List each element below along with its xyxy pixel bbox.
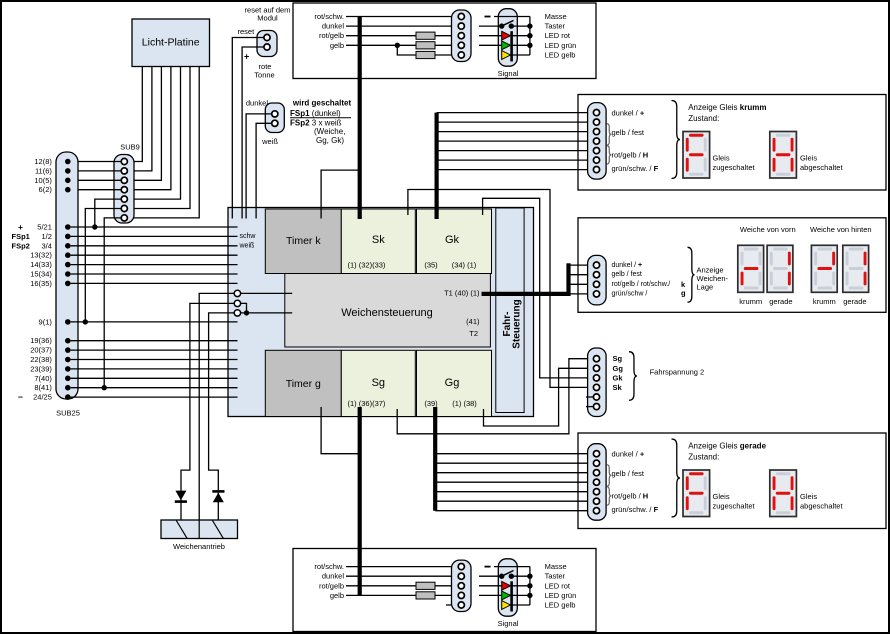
svg-text:14(33): 14(33) bbox=[30, 260, 52, 269]
Licht-Platine board bbox=[132, 19, 210, 67]
resistor R gelb bbox=[416, 592, 435, 599]
svg-text:Sk: Sk bbox=[613, 383, 623, 392]
module main board bbox=[228, 208, 534, 417]
SUB25 pin 16(35) bbox=[65, 281, 71, 287]
Weichenantrieb box bbox=[161, 520, 238, 539]
svg-text:22(38): 22(38) bbox=[30, 355, 52, 364]
svg-text:rot/gelb / H: rot/gelb / H bbox=[612, 491, 649, 500]
wire SUB25 row to module bbox=[71, 254, 238, 256]
module output pin 2 bbox=[234, 300, 240, 306]
pin 5 bbox=[593, 148, 599, 154]
svg-text:Gleis: Gleis bbox=[713, 154, 730, 163]
svg-text:8(41): 8(41) bbox=[34, 383, 52, 392]
SUB25 pin 15(34) bbox=[65, 271, 71, 277]
connector pin 3 bbox=[458, 33, 464, 39]
wire Licht-Platine pin 2 to SUB9 pin 2 bbox=[127, 67, 151, 171]
big brace bbox=[672, 101, 681, 179]
pin 4 bbox=[593, 291, 599, 297]
wire bus to pin 1 bbox=[435, 453, 593, 455]
connector pin 2 bbox=[458, 23, 464, 29]
wire Masse bbox=[494, 566, 530, 568]
svg-text:9(1): 9(1) bbox=[39, 317, 53, 326]
signal box frame bbox=[293, 3, 596, 79]
svg-text:weiß: weiß bbox=[239, 242, 255, 249]
svg-text:Licht-Platine: Licht-Platine bbox=[142, 37, 200, 49]
svg-text:LED grün: LED grün bbox=[545, 41, 577, 50]
wire Licht-Platine pin 6 to SUB9 pin 6 bbox=[127, 67, 190, 209]
LED gelb bbox=[502, 601, 511, 610]
pin 1 bbox=[593, 451, 599, 457]
svg-text:3/4: 3/4 bbox=[41, 241, 51, 250]
wire pin1 into Weichensteuerung bbox=[241, 292, 293, 294]
SUB25 pin 6(2) bbox=[65, 187, 71, 193]
wire bus to pin 3 bbox=[437, 131, 594, 133]
wire bus to pin 2 bbox=[437, 121, 594, 123]
svg-text:Taster: Taster bbox=[545, 22, 566, 31]
wire SUB9 pin 6 to 9(1) row bbox=[85, 209, 121, 322]
svg-text:16(35): 16(35) bbox=[30, 279, 52, 288]
Weichen-Lage box bbox=[578, 218, 886, 312]
pin 2 bbox=[593, 365, 599, 371]
SUB9 pin 5 bbox=[121, 196, 127, 202]
pin 2 bbox=[593, 272, 599, 278]
svg-text:LED rot: LED rot bbox=[545, 31, 571, 40]
svg-text:Modul: Modul bbox=[257, 14, 278, 23]
pin 2 bbox=[593, 460, 599, 466]
LED rot bbox=[479, 35, 502, 37]
connector pin 1 bbox=[458, 13, 464, 19]
svg-text:Steuerung: Steuerung bbox=[512, 299, 523, 348]
wire Timer g to Sg bus bbox=[321, 407, 358, 454]
wire bus to pin 4 bbox=[435, 481, 593, 483]
wire SUB25 row to module bbox=[71, 282, 238, 284]
wire drive coil 2 bbox=[209, 313, 235, 520]
svg-text:(1) (32)(33): (1) (32)(33) bbox=[348, 261, 386, 270]
brace Fahrspannung bbox=[629, 352, 637, 401]
svg-text:Gk: Gk bbox=[445, 234, 460, 246]
wire SUB9 pin 3 to SUB25 bbox=[71, 179, 122, 181]
signal lamp connector bbox=[498, 559, 517, 616]
svg-text:Gg, Gk): Gg, Gk) bbox=[316, 136, 344, 145]
pin 2 bbox=[593, 119, 599, 125]
connector module side bbox=[452, 10, 472, 62]
LED rot bbox=[479, 585, 502, 587]
wire SUB25 row to module bbox=[71, 387, 238, 389]
LED gruen bbox=[479, 594, 502, 596]
svg-text:Signal: Signal bbox=[498, 619, 519, 628]
SUB25 pin 8(41) bbox=[65, 385, 71, 391]
SUB9 pin 7 bbox=[121, 215, 127, 221]
wire bus to pin 3 bbox=[435, 472, 593, 474]
7-segment display H bbox=[770, 470, 797, 517]
svg-text:dunkel / +: dunkel / + bbox=[612, 108, 645, 117]
group brace b bbox=[607, 487, 612, 506]
svg-text:rot/schw.: rot/schw. bbox=[314, 12, 344, 21]
svg-text:dunkel: dunkel bbox=[246, 99, 268, 108]
wire Masse bbox=[494, 16, 530, 18]
svg-text:24/25: 24/25 bbox=[33, 393, 52, 402]
svg-text:(1) (36)(37): (1) (36)(37) bbox=[348, 399, 386, 408]
SUB25 pin 7(40) bbox=[65, 376, 71, 382]
signal lamp connector bbox=[498, 9, 517, 66]
svg-text:rot/gelb: rot/gelb bbox=[319, 31, 344, 40]
wire reset pin1 to module bbox=[232, 38, 264, 219]
svg-text:LED rot: LED rot bbox=[545, 581, 571, 590]
SUB9 pin 3 bbox=[121, 177, 127, 183]
stub wire pin5 bbox=[446, 604, 458, 606]
pin 3 bbox=[593, 375, 599, 381]
svg-text:10(5): 10(5) bbox=[34, 176, 52, 185]
svg-text:Timer g: Timer g bbox=[286, 378, 321, 390]
diode D2 bbox=[212, 490, 224, 493]
svg-text:krumm: krumm bbox=[739, 297, 762, 306]
svg-text:LED gelb: LED gelb bbox=[545, 601, 576, 610]
svg-text:Weichenantrieb: Weichenantrieb bbox=[173, 542, 225, 551]
svg-text:1/2: 1/2 bbox=[41, 232, 51, 241]
connector pin 5 bbox=[458, 52, 464, 58]
svg-text:gerade: gerade bbox=[769, 297, 792, 306]
svg-text:Gleis: Gleis bbox=[800, 154, 817, 163]
branch wire to third resistor bbox=[397, 45, 458, 55]
pin 3 bbox=[593, 281, 599, 287]
wire SUB9 pin 7 to 8(41) row bbox=[104, 218, 121, 388]
SUB25 pin 20(37) bbox=[65, 347, 71, 353]
wire bus to pin 7 bbox=[437, 169, 594, 171]
stub pin6 bbox=[586, 406, 593, 408]
connector rote Tonne bbox=[257, 31, 277, 57]
wire bar to pin 4 bbox=[569, 293, 594, 295]
brace Anzeige Weichen-Lage bbox=[688, 247, 695, 302]
bus Gg to Anzeige gerade bbox=[433, 407, 437, 511]
svg-text:(1) (38): (1) (38) bbox=[452, 399, 477, 408]
pin 5 bbox=[593, 394, 599, 400]
wire bar to pin 3 bbox=[569, 283, 594, 285]
svg-text:Lage: Lage bbox=[697, 283, 714, 292]
wire SUB25 row to module bbox=[71, 359, 238, 361]
switch Taster bbox=[479, 575, 502, 577]
svg-text:11(6): 11(6) bbox=[35, 166, 52, 175]
wire bus to pin 1 bbox=[437, 112, 594, 114]
wire bar to pin 1 bbox=[569, 264, 594, 266]
Timer k block bbox=[265, 209, 341, 274]
wire SUB9 pin 4 to SUB25 bbox=[71, 189, 122, 191]
Anzeige Gleis gerade box bbox=[578, 433, 886, 529]
underline bbox=[290, 117, 351, 119]
SUB9 pin 2 bbox=[121, 168, 127, 174]
svg-text:rot/gelb / H: rot/gelb / H bbox=[612, 150, 649, 159]
group brace a bbox=[607, 465, 612, 487]
pin 3 bbox=[593, 129, 599, 135]
wire SUB25 row to module bbox=[71, 368, 238, 370]
wire bus to pin 6 bbox=[435, 500, 593, 502]
wire Gk to Fahrspannung bbox=[483, 198, 594, 378]
svg-text:13(32): 13(32) bbox=[30, 251, 52, 260]
resistor R rot/gelb bbox=[416, 32, 435, 39]
wire Sk to Fahrspannung bbox=[408, 190, 594, 388]
signal box frame bbox=[293, 549, 596, 632]
wire SUB9 pin 5 to +5/21 row bbox=[95, 199, 121, 227]
wire Licht-Platine pin 4 to SUB9 pin 4 bbox=[127, 67, 170, 190]
Fahr-Steuerung block bbox=[496, 208, 524, 413]
connector SUB25 bbox=[56, 152, 78, 399]
SUB25 pin 1/2 bbox=[65, 234, 71, 240]
wire pin3 into Weichensteuerung bbox=[241, 312, 293, 314]
svg-text:gelb / fest: gelb / fest bbox=[612, 469, 645, 478]
svg-text:Signal: Signal bbox=[498, 69, 519, 78]
wire dunkel pin to module bbox=[246, 114, 272, 219]
svg-text:7(40): 7(40) bbox=[34, 374, 52, 383]
switch Taster bbox=[479, 25, 502, 27]
display hinten gerade bbox=[843, 245, 869, 292]
wire Licht-Platine pin 1 to SUB9 pin 1 bbox=[127, 67, 142, 162]
pin 6 bbox=[593, 157, 599, 163]
svg-text:(39): (39) bbox=[424, 399, 438, 408]
svg-text:12(8): 12(8) bbox=[34, 157, 52, 166]
resistor R rot/gelb bbox=[416, 582, 435, 589]
svg-text:schw: schw bbox=[240, 233, 257, 240]
svg-text:LED grün: LED grün bbox=[545, 591, 577, 600]
svg-text:reset: reset bbox=[238, 27, 256, 36]
pin 4 bbox=[593, 479, 599, 485]
connector FSp jumper bbox=[265, 103, 284, 133]
svg-text:Anzeige Gleis gerade: Anzeige Gleis gerade bbox=[688, 441, 766, 450]
SUB25 pin 24/25 bbox=[65, 394, 71, 400]
svg-text:Gg: Gg bbox=[445, 377, 460, 389]
svg-text:abgeschaltet: abgeschaltet bbox=[800, 502, 843, 511]
Weichensteuerung block bbox=[285, 274, 491, 348]
svg-text:zugeschaltet: zugeschaltet bbox=[713, 502, 756, 511]
connector pin 5 bbox=[458, 602, 464, 608]
wire reset pin2 to module bbox=[242, 47, 264, 219]
wire SUB25 row to module bbox=[71, 340, 238, 342]
wire rot/gelb row bbox=[346, 585, 458, 587]
svg-text:Zustand:: Zustand: bbox=[688, 453, 719, 462]
svg-text:FSp2 3 x weiß: FSp2 3 x weiß bbox=[290, 118, 342, 127]
wire pin2 join bbox=[241, 303, 247, 313]
svg-text:gelb / fest: gelb / fest bbox=[612, 128, 645, 137]
connector pin 3 bbox=[458, 583, 464, 589]
SUB25 pin 9(1) bbox=[65, 319, 71, 325]
svg-text:5/21: 5/21 bbox=[37, 223, 52, 232]
wire SUB25 row to module bbox=[71, 273, 238, 275]
connector pin 4 bbox=[458, 592, 464, 598]
module output pin 3 bbox=[234, 310, 240, 316]
pin 1 bbox=[593, 262, 599, 268]
bus Sg to bottom signal bbox=[358, 407, 362, 595]
Sg block bbox=[341, 350, 415, 416]
svg-text:(35): (35) bbox=[424, 261, 438, 270]
svg-text:T2: T2 bbox=[469, 329, 478, 338]
svg-text:zugeschaltet: zugeschaltet bbox=[713, 163, 756, 172]
svg-text:Gk: Gk bbox=[613, 373, 624, 382]
SUB25 pin 14(33) bbox=[65, 262, 71, 268]
wire SUB9 pin 2 to SUB25 bbox=[71, 170, 122, 172]
svg-text:grün/schw /: grün/schw / bbox=[612, 290, 648, 297]
connector krumm bbox=[588, 103, 607, 180]
LED cathode bar bbox=[510, 581, 513, 611]
svg-text:Masse: Masse bbox=[545, 12, 567, 21]
svg-text:gerade: gerade bbox=[843, 297, 866, 306]
wire bus to pin 4 bbox=[437, 140, 594, 142]
svg-text:weiß: weiß bbox=[261, 137, 278, 146]
wire Sg to Fahrspannung bbox=[397, 359, 593, 434]
Gg block bbox=[417, 350, 492, 416]
SUB9 pin 4 bbox=[121, 187, 127, 193]
pin 1 bbox=[593, 356, 599, 362]
svg-text:rot/gelb: rot/gelb bbox=[319, 581, 344, 590]
pin 6 bbox=[593, 404, 599, 410]
display hinten krumm bbox=[811, 245, 837, 292]
wire weiss pin to module bbox=[256, 123, 272, 218]
SUB25 pin 11(6) bbox=[65, 168, 71, 174]
svg-text:(34) (1): (34) (1) bbox=[452, 261, 477, 270]
Anzeige Gleis krumm box bbox=[578, 95, 886, 191]
pin 3 bbox=[593, 470, 599, 476]
stub pin5 bbox=[586, 396, 593, 398]
svg-text:(41): (41) bbox=[466, 317, 480, 326]
LED cathode bar bbox=[510, 31, 513, 61]
svg-text:+: + bbox=[244, 52, 249, 62]
svg-text:Sg: Sg bbox=[613, 354, 623, 363]
svg-text:wird geschaltet: wird geschaltet bbox=[292, 99, 352, 108]
svg-text:Gg: Gg bbox=[613, 364, 624, 373]
resistor R third bbox=[416, 51, 435, 58]
svg-text:Fahrspannung 2: Fahrspannung 2 bbox=[650, 367, 705, 376]
svg-text:Zustand:: Zustand: bbox=[688, 114, 719, 123]
LED gelb bbox=[502, 51, 511, 60]
wire Timer k to Sk bus bbox=[321, 170, 358, 218]
wire rot/schw. row bbox=[346, 16, 458, 18]
svg-text:6(2): 6(2) bbox=[39, 185, 53, 194]
connector gerade bbox=[588, 444, 607, 521]
svg-text:dunkel / +: dunkel / + bbox=[612, 449, 645, 458]
svg-text:gelb / fest: gelb / fest bbox=[612, 271, 642, 278]
connector pin 2 bbox=[458, 573, 464, 579]
connector SUB9 bbox=[114, 155, 134, 224]
SUB25 pin 5/21 bbox=[65, 224, 71, 230]
wire Licht-Platine pin 5 to SUB9 pin 5 bbox=[127, 67, 180, 200]
pin 4 bbox=[593, 384, 599, 390]
wire SUB25 row to module bbox=[71, 264, 238, 266]
svg-text:Masse: Masse bbox=[545, 562, 567, 571]
wire SUB25 row to module bbox=[71, 226, 238, 228]
module output pin 1 bbox=[234, 290, 240, 296]
svg-text:FSp1: FSp1 bbox=[12, 232, 30, 241]
svg-text:23(39): 23(39) bbox=[30, 364, 52, 373]
wire Gg to Fahrspannung bbox=[484, 368, 594, 426]
svg-text:SUB9: SUB9 bbox=[120, 143, 140, 152]
SUB25 pin 22(38) bbox=[65, 357, 71, 363]
Timer g block bbox=[265, 350, 341, 416]
wire bus to pin 7 bbox=[435, 510, 593, 512]
svg-text:Sg: Sg bbox=[372, 377, 385, 389]
display vorn krumm bbox=[738, 245, 764, 292]
svg-text:FSp2: FSp2 bbox=[12, 241, 30, 250]
junction bbox=[244, 310, 249, 315]
wire SUB25 row to module bbox=[71, 235, 238, 237]
pin 6 bbox=[593, 498, 599, 504]
SUB25 pin 12(8) bbox=[65, 159, 71, 165]
svg-text:−: − bbox=[18, 392, 23, 402]
Sk block bbox=[341, 209, 415, 274]
7-segment display H bbox=[770, 132, 797, 179]
pin 4 bbox=[593, 138, 599, 144]
connector pin 1 bbox=[458, 564, 464, 570]
pin 5 bbox=[593, 489, 599, 495]
wire bus to pin 6 bbox=[437, 159, 594, 161]
svg-text:Gleis: Gleis bbox=[800, 492, 817, 501]
svg-text:krumm: krumm bbox=[813, 297, 836, 306]
svg-text:g: g bbox=[681, 288, 686, 297]
svg-text:rot/gelb / rot/schw./: rot/gelb / rot/schw./ bbox=[612, 281, 671, 288]
wire common return bbox=[529, 17, 531, 56]
wire Licht-Platine pin 3 to SUB9 pin 3 bbox=[127, 67, 161, 181]
svg-text:rot/schw.: rot/schw. bbox=[314, 562, 344, 571]
wire SUB25 row to module bbox=[71, 377, 238, 379]
svg-text:T1 (40) (1): T1 (40) (1) bbox=[444, 289, 480, 298]
SUB25 pin 23(39) bbox=[65, 366, 71, 372]
svg-text:+: + bbox=[18, 222, 23, 232]
wire common return bbox=[529, 567, 531, 605]
svg-text:SUB25: SUB25 bbox=[56, 409, 80, 418]
svg-text:grün/schw. / F: grün/schw. / F bbox=[612, 505, 659, 514]
svg-text:dunkel: dunkel bbox=[322, 572, 344, 581]
bus T1 to Weichen-Lage bbox=[482, 292, 569, 296]
pin 7 bbox=[593, 508, 599, 514]
svg-text:gelb: gelb bbox=[330, 41, 344, 50]
Gk block bbox=[417, 209, 492, 274]
wire bus to pin 5 bbox=[435, 491, 593, 493]
wire gelb row bbox=[346, 44, 458, 46]
svg-text:(Weiche,: (Weiche, bbox=[314, 127, 345, 136]
wire bus to pin 2 bbox=[435, 462, 593, 464]
svg-text:Timer k: Timer k bbox=[286, 235, 321, 247]
svg-text:grün/schw. / F: grün/schw. / F bbox=[612, 164, 659, 173]
wire SUB25 row to module bbox=[71, 396, 238, 398]
svg-text:FSp1 (dunkel): FSp1 (dunkel) bbox=[290, 109, 341, 118]
svg-text:19(36): 19(36) bbox=[30, 336, 52, 345]
SUB9 pin 6 bbox=[121, 205, 127, 211]
svg-text:Sk: Sk bbox=[372, 234, 385, 246]
svg-text:Taster: Taster bbox=[545, 572, 566, 581]
wire SUB25 row to module bbox=[71, 245, 238, 247]
wire SUB25 row to module bbox=[71, 321, 238, 323]
pin 7 bbox=[593, 167, 599, 173]
minus mark Masse bbox=[485, 566, 491, 568]
SUB9 pin 1 bbox=[121, 158, 127, 164]
wire drive common bbox=[199, 293, 234, 520]
wire SUB9 pin 1 to SUB25 bbox=[71, 161, 122, 163]
connector Fahrspannung 2 bbox=[588, 348, 607, 417]
svg-text:Weiche von vorn: Weiche von vorn bbox=[740, 225, 796, 234]
group brace b bbox=[607, 146, 612, 165]
svg-text:Weiche von hinten: Weiche von hinten bbox=[810, 225, 872, 234]
svg-text:abgeschaltet: abgeschaltet bbox=[800, 163, 843, 172]
bus Gk to Anzeige krumm bbox=[435, 113, 439, 219]
pin 1 bbox=[593, 110, 599, 116]
connector Weichen-Lage bbox=[588, 255, 607, 305]
7-segment display F bbox=[683, 470, 710, 517]
connector module side bbox=[452, 560, 472, 611]
LED gruen bbox=[479, 44, 502, 46]
svg-text:Anzeige Gleis krumm: Anzeige Gleis krumm bbox=[688, 103, 766, 112]
diode D1 bbox=[175, 491, 186, 501]
wire rot/gelb row bbox=[346, 35, 458, 37]
wire drive coil 1 bbox=[181, 303, 234, 520]
svg-text:dunkel: dunkel bbox=[322, 22, 344, 31]
SUB25 pin 13(32) bbox=[65, 252, 71, 258]
bus top signal to Sk bbox=[358, 17, 362, 220]
